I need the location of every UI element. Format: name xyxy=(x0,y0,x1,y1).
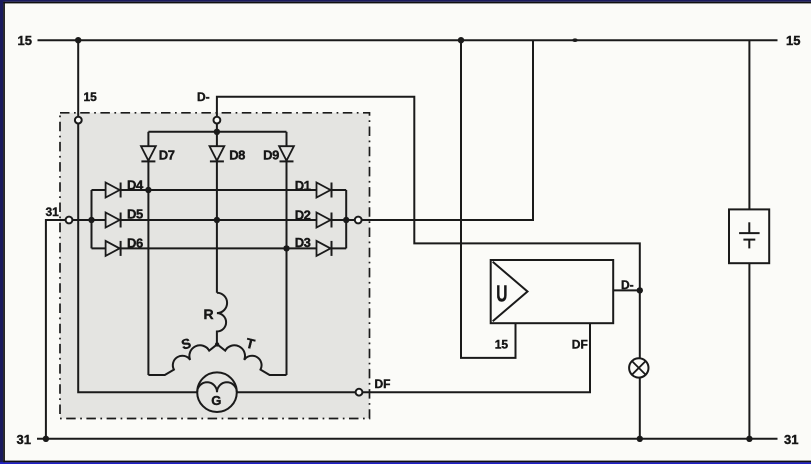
wire: R winding column upper xyxy=(216,220,218,293)
star point node xyxy=(215,342,219,346)
svg-text:D3: D3 xyxy=(295,235,311,250)
svg-text:D6: D6 xyxy=(127,236,143,251)
wire: regulator 15 supply from rail xyxy=(461,40,516,358)
wire: top 15 rail xyxy=(38,39,778,41)
junction bottom rail battery xyxy=(746,436,752,442)
junction phase T row xyxy=(283,245,289,251)
junction right bracket D2 row xyxy=(343,217,349,223)
winding S coil xyxy=(148,344,217,375)
svg-text:DF: DF xyxy=(375,377,391,391)
diode D6 xyxy=(106,241,121,256)
wire: D7 column xyxy=(147,132,149,190)
svg-text:D7: D7 xyxy=(159,148,175,163)
svg-text:DF: DF xyxy=(572,338,588,352)
generator G rotor xyxy=(197,372,237,412)
wire: phase T column down to winding T corner xyxy=(286,248,288,375)
svg-text:15: 15 xyxy=(786,33,800,48)
wire: right cathode bracket xyxy=(345,190,347,248)
junction top rail at 15 feed xyxy=(75,37,81,43)
svg-text:D-: D- xyxy=(621,278,634,292)
diode D2 xyxy=(317,213,332,228)
svg-text:D2: D2 xyxy=(295,208,311,223)
junction regulator D- node xyxy=(637,287,643,293)
diode D5 xyxy=(106,213,121,228)
winding R coil xyxy=(217,293,227,345)
svg-text:15: 15 xyxy=(495,338,509,352)
terminal 31 on alternator xyxy=(66,217,73,224)
svg-text:D4: D4 xyxy=(127,177,144,192)
svg-text:R: R xyxy=(204,306,214,322)
svg-text:31: 31 xyxy=(17,432,31,447)
wire: D9 column xyxy=(286,132,288,249)
junction phase S row xyxy=(214,217,220,223)
wire: phase row D4-D1 xyxy=(92,189,347,191)
svg-text:D-: D- xyxy=(197,90,210,104)
junction bottom rail lamp xyxy=(637,436,643,442)
wire: 31 left drop and D5 row xyxy=(46,220,358,439)
svg-text:31: 31 xyxy=(46,205,60,219)
wire: battery feed xyxy=(748,40,750,439)
blue outer border bottom xyxy=(0,462,811,464)
wire: phase row D6-D3 xyxy=(92,247,347,249)
regulator U1 box xyxy=(491,260,614,323)
navy outer border top xyxy=(0,0,811,2)
junction left bracket D5 row xyxy=(88,217,94,223)
terminal B+ on alternator xyxy=(355,217,362,224)
wire: phase R column down to winding S corner xyxy=(147,190,149,375)
diode D7 xyxy=(141,146,156,161)
terminal D- on alternator xyxy=(214,117,221,124)
wire: left anode bracket xyxy=(91,190,93,248)
diode D9 xyxy=(279,146,294,161)
wire: D- from alternator to regulator and lamp xyxy=(217,97,640,439)
black frame left xyxy=(3,2,5,462)
junction small mark on top rail xyxy=(572,38,578,42)
svg-text:D8: D8 xyxy=(229,148,245,163)
terminal DF on alternator xyxy=(356,389,363,396)
navy outer border left xyxy=(0,0,3,464)
alternator dash-dot box with gray fill xyxy=(60,113,370,419)
black frame top xyxy=(3,2,811,4)
wire: regulator D- stub xyxy=(613,289,640,291)
terminal 15 on alternator xyxy=(75,117,82,124)
svg-text:D9: D9 xyxy=(263,148,279,163)
svg-text:D5: D5 xyxy=(127,207,143,222)
svg-text:15: 15 xyxy=(18,33,32,48)
wire: exciter diode rail xyxy=(148,131,286,133)
indicator lamp xyxy=(629,358,648,377)
wire: 15 feed down into alternator to field brush xyxy=(78,40,590,392)
svg-text:U: U xyxy=(496,281,507,307)
junction top rail at regulator feed xyxy=(458,37,464,43)
battery B1 xyxy=(729,209,769,263)
junction exciter rail xyxy=(214,129,220,135)
diode D1 xyxy=(317,183,332,198)
diode D8 xyxy=(210,146,225,161)
svg-text:G: G xyxy=(211,393,221,408)
svg-text:31: 31 xyxy=(784,432,798,447)
winding T coil xyxy=(217,344,286,375)
junction bottom rail left xyxy=(43,436,49,442)
junction phase R row xyxy=(145,187,151,193)
black frame bottom xyxy=(3,461,811,463)
svg-text:15: 15 xyxy=(84,90,98,104)
wire: B+ from rectifier up to 15 rail xyxy=(358,40,533,220)
svg-text:D1: D1 xyxy=(295,178,311,193)
diode D4 xyxy=(106,183,121,198)
diode D3 xyxy=(317,241,332,256)
wire: D8 column xyxy=(216,132,218,220)
wire: bottom 31 rail xyxy=(37,438,778,440)
